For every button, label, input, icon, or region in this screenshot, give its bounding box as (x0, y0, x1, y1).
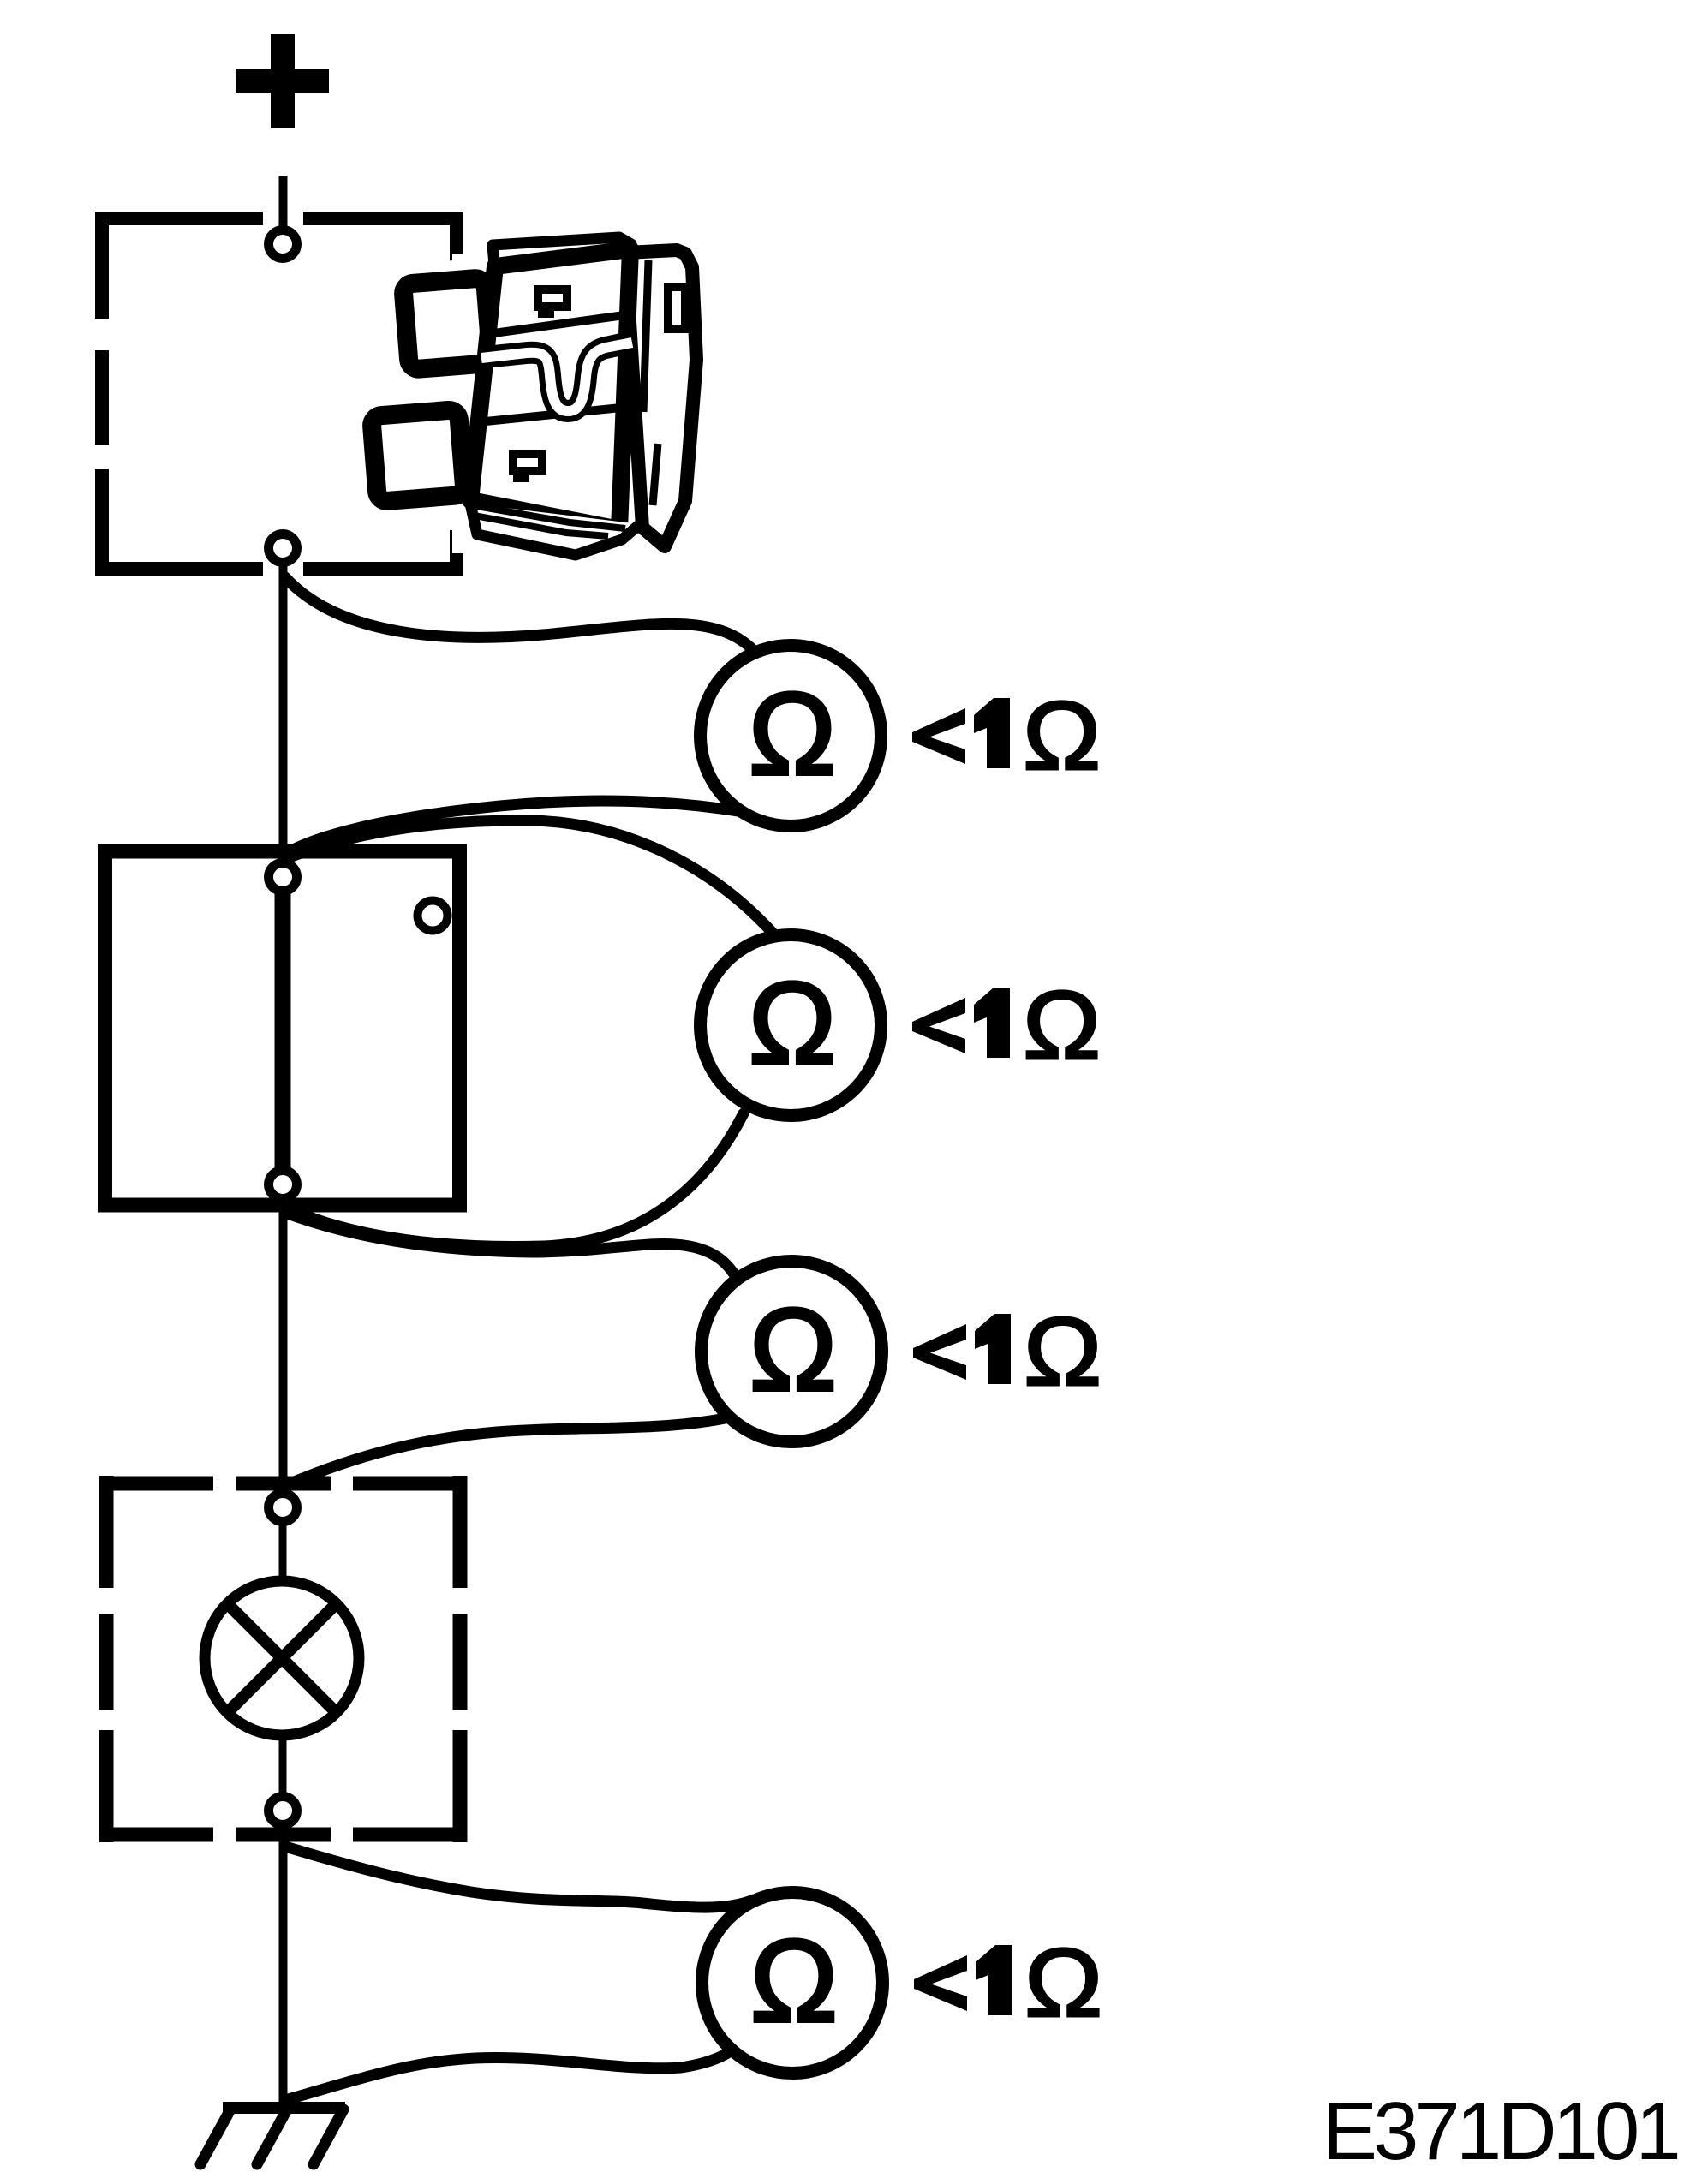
fuse holder box bottom edge (95, 562, 463, 576)
blade fuse: side face slot (668, 287, 685, 329)
ohmmeter lead C (switch top node to meter 2) (285, 820, 779, 940)
blade fuse: top face sliver (493, 237, 631, 266)
ohmmeter lead A (fuse bottom node to meter 1) (285, 577, 758, 655)
label 1 for meter 1: <1 ohm (912, 682, 1101, 790)
fuse holder box right edge (450, 212, 463, 576)
blade fuse: side face inner ridge upper (643, 260, 648, 412)
label 2 for meter 2: <1 ohm (912, 971, 1101, 1079)
ohmmeter 4 circle (702, 1893, 883, 2074)
switch terminal (top) (269, 863, 297, 892)
wire from lamp down to ground (279, 1828, 288, 2103)
blade fuse: skirt seam line (472, 505, 625, 536)
blade fuse: S-shaped fuse element core (481, 343, 632, 411)
svg-text:E371D101: E371D101 (1323, 2086, 1677, 2177)
ohmmeter lead E (switch bottom node to meter 3) (285, 1213, 741, 1286)
switch internal wire (275, 891, 291, 1171)
svg-text:Ω: Ω (750, 1916, 838, 2047)
blade fuse: front divider upper (487, 315, 624, 334)
blade fuse: front divider lower (477, 408, 621, 422)
ground symbol bar (223, 2102, 345, 2114)
lamp terminal (top) (269, 1494, 297, 1522)
blade fuse: top blade terminal (403, 277, 492, 369)
ohmmeter 1 circle (701, 646, 881, 826)
wire from fuse holder down to switch box (279, 564, 288, 858)
blade fuse: side face inner ridge lower (653, 444, 658, 505)
lamp terminal (bottom) (269, 1797, 297, 1825)
switch terminal (bottom) (269, 1171, 297, 1199)
blade fuse: bottom blade terminal (371, 409, 465, 502)
lamp symbol X (227, 1603, 336, 1712)
switch box (solid) (105, 851, 460, 1205)
blade fuse: top rating mark (538, 289, 567, 313)
blade fuse: right side face (625, 250, 696, 546)
svg-text:Ω: Ω (749, 958, 836, 1089)
svg-text:Ω: Ω (749, 1285, 837, 1416)
lamp box bottom edge (99, 1828, 467, 1842)
blade fuse illustration: white halo (348, 254, 714, 553)
ohmmeter lead H (ground node to meter 4) (285, 2044, 740, 2100)
label 4 for meter 4: <1 ohm (914, 1929, 1102, 2037)
wire from + down to fuse holder (279, 176, 288, 229)
lamp box (dashed) top edge (99, 1477, 467, 1491)
svg-text:Ω: Ω (1023, 682, 1101, 790)
svg-text:Ω: Ω (749, 669, 836, 800)
ohmmeter lead G (lamp bottom node to meter 4) (285, 1847, 754, 1907)
ohmmeter lead B (meter 1 to switch top node) (285, 801, 744, 854)
fuse holder terminal (top) (269, 230, 297, 259)
blade fuse: bottom skirt (470, 504, 640, 555)
battery positive terminal + (236, 34, 329, 128)
blade fuse: body front face (470, 249, 630, 529)
ohmmeter 3 circle (702, 1262, 882, 1442)
wire from switch down to lamp box (279, 1203, 288, 1489)
ohmmeter lead D (switch bottom node to meter 2) (285, 1113, 744, 1246)
switch auxiliary contact circle (418, 901, 448, 931)
fuse holder box (dashed) top edge (95, 212, 463, 225)
lamp symbol circle (205, 1581, 359, 1735)
lamp internal wire bottom (279, 1733, 287, 1793)
ground symbol hatches (200, 2109, 343, 2164)
lamp internal wire top (279, 1525, 287, 1583)
blade fuse: bottom rating mark (513, 454, 542, 478)
fuse holder terminal (bottom) (269, 534, 297, 563)
ohmmeter 2 circle (701, 935, 881, 1116)
lamp box right edge (453, 1476, 468, 1842)
label 3 for meter 3: <1 ohm (913, 1298, 1102, 1405)
blade fuse: S-shaped fuse element outline (485, 343, 630, 411)
ohmmeter lead F (meter 3 to lamp top node) (286, 1415, 741, 1485)
fuse holder box left edge (dashed) (95, 212, 109, 575)
lamp box left edge (99, 1476, 114, 1842)
